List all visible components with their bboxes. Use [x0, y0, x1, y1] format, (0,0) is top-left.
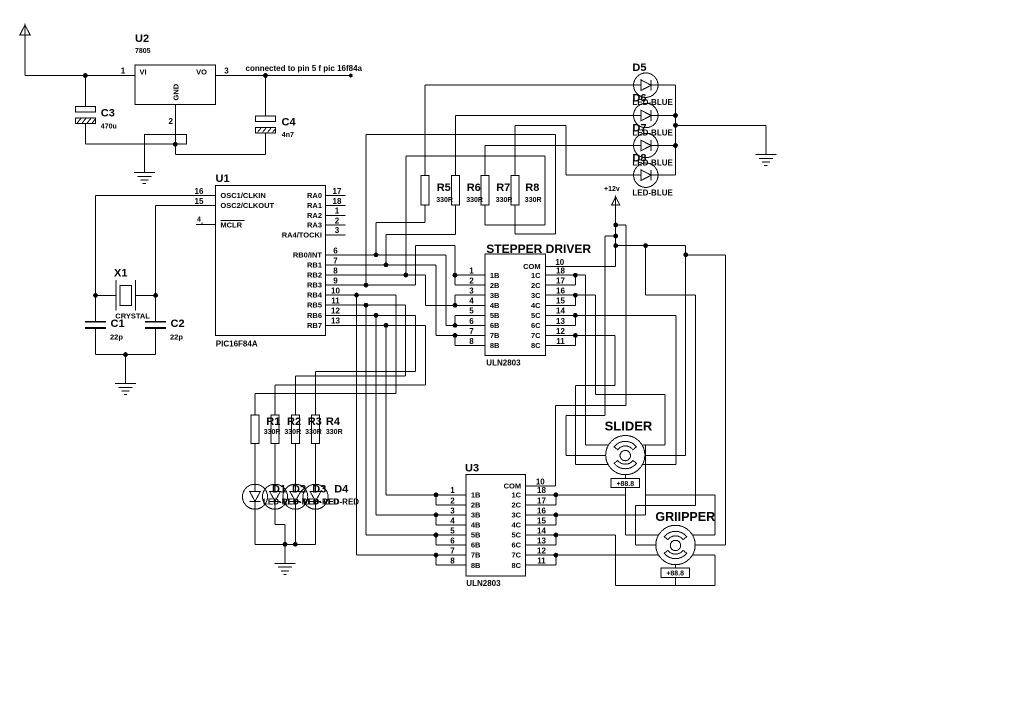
- wire D3 cathode: [294, 509, 296, 544]
- junction U3 1B: [434, 492, 439, 497]
- svg-text:MCLR: MCLR: [220, 220, 242, 229]
- value CRYSTAL: [115, 312, 150, 321]
- svg-text:14: 14: [537, 526, 546, 535]
- pin label 3C U3: [512, 511, 522, 520]
- resistor R7: [481, 175, 489, 204]
- svg-text:RA0: RA0: [307, 191, 322, 200]
- junction RB0-R5: [374, 253, 379, 258]
- wire rail to ground: [676, 125, 766, 154]
- wire meter node to gripper top-left: [625, 495, 658, 535]
- svg-text:COM: COM: [523, 262, 541, 271]
- pin name RB7: [307, 321, 322, 330]
- svg-text:13: 13: [331, 317, 340, 326]
- label R8: [525, 182, 539, 194]
- junction rail B: [613, 234, 618, 239]
- junction U3 5B: [434, 533, 439, 538]
- pin number 12 stepper: [556, 327, 565, 336]
- pin number 1 U1: [335, 207, 340, 216]
- pin number 6 U1: [333, 246, 338, 255]
- LED D1: [243, 484, 268, 509]
- wire RB3 net: [326, 245, 456, 285]
- junction rail A: [613, 223, 618, 228]
- value ULN2803 U3: [466, 579, 501, 588]
- pin number 1 U2: [121, 67, 126, 76]
- svg-text:1B: 1B: [490, 271, 500, 280]
- pin number 18 stepper: [556, 267, 565, 276]
- pin number 8 U1: [333, 266, 338, 275]
- pin wire 7B stepper: [455, 334, 485, 336]
- svg-text:7805: 7805: [135, 48, 151, 55]
- pin name RB1: [307, 260, 322, 269]
- pin number 7 U1: [333, 256, 338, 265]
- wire U3 COM: [526, 485, 556, 487]
- wire U3 pair 7C8C: [526, 555, 556, 565]
- wire R2 to D2: [274, 443, 276, 484]
- value 330R R2: [284, 429, 301, 436]
- svg-text:5C: 5C: [531, 311, 541, 320]
- wire R8 bottom to RB3: [366, 135, 555, 286]
- pin number 13 U1: [331, 317, 340, 326]
- pin label 6C stepper: [531, 321, 541, 330]
- pin number 11 U1: [331, 297, 340, 306]
- svg-text:8C: 8C: [512, 561, 522, 570]
- crystal X1: [96, 280, 156, 310]
- microcontroller U1 body: [216, 186, 326, 336]
- label D2: [292, 484, 306, 496]
- junction RB5-U3: [364, 303, 369, 308]
- pin number 15: [195, 197, 204, 206]
- wire +12v rail to COM: [615, 205, 617, 266]
- junction stepper 4B: [453, 303, 458, 308]
- wire VCC to U2 VI: [25, 35, 135, 76]
- node end connected to pin 5: [349, 74, 353, 78]
- svg-text:4: 4: [197, 216, 201, 223]
- svg-text:3C: 3C: [512, 511, 522, 520]
- junction RB3-R8: [364, 283, 369, 288]
- svg-text:3: 3: [450, 506, 455, 515]
- pin wire 8B stepper: [455, 344, 485, 346]
- pin label 3B stepper: [490, 291, 500, 300]
- svg-text:3B: 3B: [471, 511, 481, 520]
- junction crystal ground: [123, 352, 128, 357]
- svg-text:R3: R3: [308, 416, 322, 428]
- wire to crystal ground: [125, 355, 127, 384]
- svg-text:12: 12: [537, 547, 546, 556]
- value 470u: [101, 124, 117, 131]
- pin number 11 stepper: [556, 337, 565, 346]
- svg-text:470u: 470u: [101, 124, 117, 131]
- pin name RB2: [307, 271, 322, 280]
- svg-text:U2: U2: [135, 33, 149, 45]
- wire R5 bottom to RB0: [376, 205, 425, 255]
- resistor R8: [511, 175, 519, 204]
- wire U2 GND pin 2: [174, 105, 176, 155]
- svg-text:18: 18: [556, 267, 565, 276]
- svg-text:4n7: 4n7: [282, 132, 294, 139]
- pin number 11 U3: [537, 557, 546, 566]
- junction stepper 1B: [453, 273, 458, 278]
- svg-text:17: 17: [556, 277, 565, 286]
- label R6: [467, 182, 481, 194]
- wire stepper 5C to slider: [545, 315, 676, 464]
- pin name RB3: [307, 281, 322, 290]
- pin label 2B stepper: [490, 281, 500, 290]
- resistor R3: [291, 415, 299, 443]
- wire RB5 to U3 5B: [366, 305, 436, 535]
- wire R6 top to D6: [456, 116, 634, 176]
- pin number 3 stepper: [469, 287, 474, 296]
- pin number 18 U3: [537, 486, 546, 495]
- pin number 12 U1: [331, 307, 340, 316]
- value LED-RED D3: [303, 498, 339, 507]
- pin wire 3B U3: [436, 514, 466, 516]
- pin wire 4B U3: [436, 524, 466, 526]
- label U2: [135, 33, 149, 45]
- svg-text:330R: 330R: [525, 197, 542, 204]
- pin number 5 stepper: [469, 307, 474, 316]
- svg-text:14: 14: [556, 307, 565, 316]
- label C4: [282, 117, 297, 129]
- svg-text:1C: 1C: [512, 490, 522, 499]
- pin name OSC1/CLKIN: [220, 191, 265, 200]
- svg-text:D2: D2: [292, 484, 306, 496]
- LED D7: [634, 133, 658, 157]
- wire C3 to ground node: [85, 143, 144, 145]
- label R5: [437, 182, 451, 194]
- wire +12v to U3 COM: [556, 225, 626, 486]
- value 330R R1: [264, 429, 281, 436]
- pin name RB4: [307, 291, 323, 300]
- svg-text:2: 2: [450, 496, 455, 505]
- svg-text:330R: 330R: [305, 429, 322, 436]
- junction RB2-R7: [403, 273, 408, 278]
- junction RB1-R6: [384, 263, 389, 268]
- svg-text:OSC2/CLKOUT: OSC2/CLKOUT: [220, 201, 274, 210]
- svg-text:17: 17: [537, 496, 546, 505]
- svg-text:2: 2: [169, 117, 174, 126]
- svg-text:22p: 22p: [170, 333, 183, 342]
- svg-text:17: 17: [333, 187, 342, 196]
- pin number 3 U2: [224, 67, 229, 76]
- svg-text:R6: R6: [467, 182, 481, 194]
- svg-text:8C: 8C: [531, 341, 541, 350]
- pin number 17 U1: [333, 187, 342, 196]
- resistor R6: [452, 175, 460, 204]
- wire U3 7C to gripper bottom-left: [526, 554, 659, 556]
- stub RA pin 2: [326, 224, 346, 226]
- value LED-RED D2: [283, 498, 319, 507]
- svg-text:2: 2: [469, 277, 474, 286]
- svg-text:C3: C3: [101, 108, 115, 120]
- svg-text:LED-BLUE: LED-BLUE: [632, 98, 673, 107]
- svg-text:7C: 7C: [531, 331, 541, 340]
- svg-text:R7: R7: [496, 182, 510, 194]
- regulator U2 body: [135, 65, 216, 105]
- svg-text:1: 1: [121, 67, 126, 76]
- note connected to pin 5: [246, 64, 363, 73]
- label R1: [266, 416, 280, 428]
- svg-text:2B: 2B: [490, 281, 500, 290]
- svg-text:4C: 4C: [512, 521, 522, 530]
- pin number 13 U3: [537, 537, 546, 546]
- ground LEDs: [275, 563, 296, 574]
- pin name OSC2/CLKOUT: [220, 201, 274, 210]
- wire U3 pair 5B6B: [435, 535, 437, 545]
- svg-text:R5: R5: [437, 182, 451, 194]
- svg-text:4B: 4B: [471, 521, 481, 530]
- capacitor C2: [145, 322, 166, 355]
- svg-text:D1: D1: [272, 484, 286, 496]
- pin number 14 stepper: [556, 307, 565, 316]
- junction 5C6C: [573, 313, 578, 318]
- wire +12v branch C: [616, 245, 686, 247]
- svg-text:ULN2803: ULN2803: [486, 359, 521, 368]
- svg-text:7: 7: [333, 256, 338, 265]
- svg-text:RB2: RB2: [307, 271, 322, 280]
- motor GRIIPPER: [656, 525, 695, 564]
- pin label 1C stepper: [531, 271, 541, 280]
- svg-text:OSC1/CLKIN: OSC1/CLKIN: [220, 191, 265, 200]
- svg-text:5B: 5B: [471, 531, 481, 540]
- pin label 6B U3: [471, 541, 481, 550]
- svg-text:11: 11: [331, 297, 340, 306]
- label X1: [114, 268, 127, 280]
- svg-text:C4: C4: [282, 117, 297, 129]
- svg-text:U3: U3: [465, 463, 479, 475]
- junction rail D7: [673, 143, 678, 148]
- resistor R2: [271, 415, 279, 443]
- pin number 10 stepper: [555, 258, 564, 267]
- svg-text:VI: VI: [140, 67, 147, 76]
- wire RB2 net: [326, 275, 456, 305]
- svg-text:8: 8: [333, 266, 338, 275]
- label C3: [101, 108, 115, 120]
- pin label 7B stepper: [490, 331, 500, 340]
- pin wire 4B stepper: [455, 304, 485, 306]
- pin number 16 U3: [537, 506, 546, 515]
- LED D4: [303, 484, 328, 509]
- LED D3: [283, 484, 308, 509]
- pin number 18 U1: [333, 197, 342, 206]
- svg-text:10: 10: [331, 287, 340, 296]
- pin number 2 U3: [450, 496, 455, 505]
- junction box at regulator ground: [144, 134, 186, 144]
- value LED-RED D1: [263, 498, 299, 507]
- value LED-RED D4: [324, 498, 360, 507]
- LED D6: [634, 103, 658, 127]
- title STEPPER DRIVER: [486, 242, 591, 256]
- pin wire 1B stepper: [455, 274, 485, 276]
- wire LED common: [255, 543, 316, 545]
- svg-text:18: 18: [537, 486, 546, 495]
- junction 1C2C: [573, 273, 578, 278]
- wire U3 5C to gripper bottom-right: [526, 535, 715, 586]
- pin number 2 U1: [335, 216, 340, 225]
- svg-text:4: 4: [450, 516, 455, 525]
- svg-text:+88.8: +88.8: [616, 481, 634, 488]
- pin name RB0/INT: [293, 250, 323, 259]
- value 22p C1: [110, 333, 123, 342]
- svg-text:RB6: RB6: [307, 311, 322, 320]
- wire OSC1 to crystal: [95, 196, 97, 322]
- pin number 6 U3: [450, 537, 455, 546]
- label D1: [272, 484, 286, 496]
- pin number 1 stepper: [469, 267, 474, 276]
- junction 3C4C: [573, 293, 578, 298]
- value PIC16F84A: [216, 340, 258, 349]
- svg-text:10: 10: [555, 258, 564, 267]
- value 330R R3: [305, 429, 322, 436]
- pin number 17 U3: [537, 496, 546, 505]
- pin number 8 U3: [450, 557, 455, 566]
- label U3: [465, 463, 479, 475]
- svg-text:22p: 22p: [110, 333, 123, 342]
- svg-text:4C: 4C: [531, 301, 541, 310]
- junction rail D6: [673, 113, 678, 118]
- svg-text:GRIIPPER: GRIIPPER: [655, 510, 715, 524]
- svg-text:SLIDER: SLIDER: [605, 419, 653, 434]
- pin label 1B U3: [471, 490, 481, 499]
- wire stepper 7C to slider: [545, 335, 615, 464]
- svg-text:LED-BLUE: LED-BLUE: [632, 129, 673, 138]
- svg-text:R2: R2: [287, 416, 301, 428]
- pin wire 2B stepper: [455, 284, 485, 286]
- pin label 3B U3: [471, 511, 481, 520]
- meter slider +88.8: [611, 478, 640, 488]
- svg-text:3: 3: [224, 67, 229, 76]
- resistor R1: [251, 415, 259, 443]
- label D5: [632, 62, 646, 74]
- pin label 5C stepper: [531, 311, 541, 320]
- svg-text:5B: 5B: [490, 311, 500, 320]
- svg-text:5: 5: [469, 307, 474, 316]
- svg-text:RB4: RB4: [307, 291, 323, 300]
- svg-text:3B: 3B: [490, 291, 500, 300]
- value 330R R6: [466, 197, 483, 204]
- wire U3 1C to meter: [526, 494, 626, 496]
- meter gripper +88.8: [661, 568, 690, 578]
- pin label COM stepper: [523, 262, 541, 271]
- svg-text:8B: 8B: [471, 561, 481, 570]
- pin number 2 U2: [169, 117, 174, 126]
- wire U2 VO output: [216, 75, 351, 77]
- pin label 7C stepper: [531, 331, 541, 340]
- pin wire 5B stepper: [455, 314, 485, 316]
- power arrow +12v: [612, 195, 620, 205]
- svg-text:330R: 330R: [436, 197, 453, 204]
- wire slider to meter: [624, 475, 626, 479]
- pin label 4B stepper: [490, 301, 500, 310]
- wire R7 top to D7: [485, 146, 633, 176]
- pin number 13 stepper: [556, 317, 565, 326]
- pin number 16 stepper: [556, 287, 565, 296]
- svg-text:330R: 330R: [326, 429, 343, 436]
- svg-text:330R: 330R: [496, 197, 513, 204]
- pin label 6B stepper: [490, 321, 500, 330]
- wire D1 cathode: [254, 509, 256, 544]
- junction D3 common: [293, 542, 298, 547]
- wire U3 pair 1B2B: [435, 495, 437, 505]
- svg-text:D4: D4: [334, 484, 349, 496]
- wire pair 7C8C: [545, 335, 575, 345]
- label D8: [632, 153, 646, 165]
- svg-text:RB5: RB5: [307, 301, 322, 310]
- svg-text:U1: U1: [216, 173, 230, 185]
- wire OSC2 to crystal: [155, 205, 157, 321]
- wire pair 3C4C: [545, 295, 575, 305]
- wire to gripper mid-right: [686, 255, 726, 545]
- ground crystal: [115, 384, 136, 395]
- pin label 5C U3: [512, 531, 522, 540]
- label R7: [496, 182, 510, 194]
- svg-text:3: 3: [335, 226, 340, 235]
- svg-text:7: 7: [450, 547, 455, 556]
- svg-text:4B: 4B: [490, 301, 500, 310]
- svg-text:D5: D5: [632, 62, 646, 74]
- pin name RA2: [307, 211, 322, 220]
- pin label 2B U3: [471, 501, 481, 510]
- svg-text:5C: 5C: [512, 531, 522, 540]
- pin number 3 U1: [335, 226, 340, 235]
- svg-text:RB0/INT: RB0/INT: [293, 250, 323, 259]
- junction branch C split: [643, 243, 648, 248]
- svg-text:6C: 6C: [512, 541, 522, 550]
- wire gripper meter down: [675, 577, 677, 585]
- pin name MCLR: [220, 220, 244, 229]
- junction stepper 7B: [453, 333, 458, 338]
- pin label 8C stepper: [531, 341, 541, 350]
- svg-text:4: 4: [469, 297, 474, 306]
- pin wire 6B U3: [436, 544, 466, 546]
- pin number 5 U3: [450, 526, 455, 535]
- value LED-BLUE D7: [632, 159, 673, 168]
- wire U3 pair 3C4C: [526, 515, 556, 525]
- LED D2: [263, 484, 288, 509]
- value 330R R5: [436, 197, 453, 204]
- wire RB5 net: [295, 305, 405, 415]
- junction U3 3B: [434, 513, 439, 518]
- junction gripper feed: [683, 252, 688, 257]
- pin label 4B U3: [471, 521, 481, 530]
- junction stepper 6B: [453, 323, 458, 328]
- value 330R R7: [496, 197, 513, 204]
- pin number 2 stepper: [469, 277, 474, 286]
- svg-text:12: 12: [556, 327, 565, 336]
- wire R1 to D1: [254, 443, 256, 484]
- wire to gripper mid-left: [636, 246, 696, 545]
- svg-text:7: 7: [469, 327, 474, 336]
- wire RB6 to U3 3B: [376, 315, 436, 515]
- wire U3 pair 5C6C: [526, 535, 556, 545]
- svg-text:RA3: RA3: [307, 221, 322, 230]
- svg-text:RB1: RB1: [307, 260, 322, 269]
- svg-text:RA1: RA1: [307, 201, 322, 210]
- junction U3 1C2C: [554, 492, 559, 497]
- svg-text:ULN2803: ULN2803: [466, 579, 501, 588]
- pin number 10 U3: [536, 477, 545, 486]
- pin name RB6: [307, 311, 322, 320]
- pin label 1B stepper: [490, 271, 500, 280]
- svg-text:6: 6: [450, 537, 455, 546]
- pin wire 6B stepper: [455, 324, 485, 326]
- driver IC U2803 body: [485, 254, 545, 355]
- svg-text:6: 6: [469, 317, 474, 326]
- pin number 15 U3: [537, 516, 546, 525]
- svg-text:11: 11: [537, 557, 546, 566]
- wire +12v to slider mid-left: [566, 236, 616, 456]
- pin label 5B U3: [471, 531, 481, 540]
- pin label 8B stepper: [490, 341, 500, 350]
